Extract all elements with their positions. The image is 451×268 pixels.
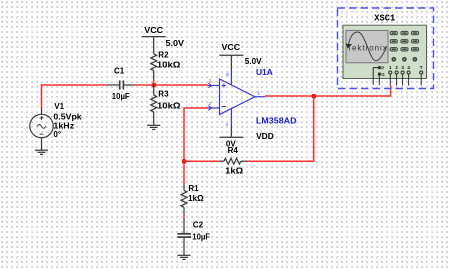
svg-text:R1: R1 [188,184,199,193]
svg-text:5.0V: 5.0V [166,39,185,48]
svg-text:1kΩ: 1kΩ [188,194,204,203]
svg-text:10µF: 10µF [192,233,210,242]
svg-text:C1: C1 [114,67,125,76]
svg-text:10kΩ: 10kΩ [157,60,181,69]
svg-text:4: 4 [407,65,410,70]
svg-text:LM358AD: LM358AD [256,116,297,126]
svg-text:T: T [420,65,423,70]
svg-text:1kΩ: 1kΩ [225,166,244,175]
svg-text:VCC: VCC [222,43,241,52]
svg-text:0.5Vpk: 0.5Vpk [53,113,82,122]
svg-text:C2: C2 [193,221,204,230]
svg-text:U1A: U1A [256,67,273,77]
svg-text:P: P [381,65,384,70]
svg-text:1: 1 [389,65,392,70]
svg-text:10kΩ: 10kΩ [157,101,181,110]
svg-text:VCC: VCC [144,26,163,35]
svg-text:10µF: 10µF [112,92,130,101]
svg-text:R4: R4 [228,146,239,155]
svg-text:5.0V: 5.0V [245,57,262,66]
svg-text:XSC1: XSC1 [374,14,396,24]
svg-text:3: 3 [401,65,404,70]
svg-text:Tektronix: Tektronix [347,43,387,52]
svg-text:G: G [381,72,385,77]
svg-text:0°: 0° [53,130,61,139]
svg-text:R2: R2 [158,51,169,60]
svg-text:VDD: VDD [256,132,274,141]
svg-text:2: 2 [395,65,398,70]
svg-text:R3: R3 [158,90,169,99]
svg-text:V1: V1 [54,102,64,111]
